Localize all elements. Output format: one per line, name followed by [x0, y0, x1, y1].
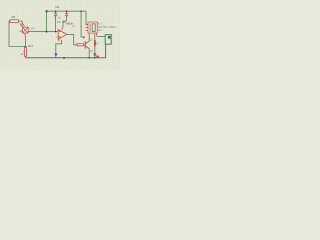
- wire bottom bus: [25, 44, 105, 58]
- wire left bus R1: [9, 21, 25, 47]
- node dot rail C1: [55, 10, 57, 12]
- wire relay pin2 to diode: [94, 35, 96, 39]
- wire C1 bottom: [55, 17, 57, 31]
- svg-text:RL1: RL1: [97, 21, 102, 25]
- wire top rail: [47, 10, 87, 12]
- op-amp U1: [57, 27, 68, 41]
- node dot divider: [25, 46, 27, 48]
- svg-text:..: ..: [97, 46, 99, 50]
- svg-text:RV1: RV1: [28, 44, 34, 48]
- node dot rail corner: [46, 10, 48, 12]
- wire relay to load box: [97, 36, 105, 38]
- node dot input x46: [46, 31, 48, 33]
- capacitor C1: [54, 11, 57, 17]
- wire op-amp ground leg: [56, 42, 62, 58]
- svg-text:C2: C2: [57, 20, 61, 24]
- wire rail-to-input vertical: [46, 11, 48, 31]
- wire C2 to op-amp V+: [63, 17, 67, 27]
- wire diode to bus: [94, 47, 96, 58]
- resistor R1: [10, 20, 18, 23]
- wire LDR bottom to node: [24, 36, 26, 47]
- wire RV1 stubs: [24, 47, 26, 58]
- node red tick x83.5: [83, 36, 84, 38]
- node dot input C1: [55, 31, 57, 33]
- node dot rail C2: [66, 10, 68, 12]
- node dot rail x81: [80, 10, 82, 12]
- wire rail to relay: [85, 11, 87, 24]
- resistor R3: [77, 44, 84, 46]
- svg-text:U1: U1: [72, 24, 76, 28]
- wire LDR stub left: [20, 30, 23, 32]
- svg-text:Q1: Q1: [89, 37, 93, 41]
- wire relay pin1 to collector: [88, 35, 90, 41]
- relay RL1: [86, 22, 98, 36]
- wire R1 to LDR: [18, 21, 22, 27]
- red X marker: [94, 53, 99, 58]
- diode D1: [94, 40, 96, 47]
- wire inverting input horizontal: [28, 31, 57, 33]
- svg-text:C1: C1: [56, 5, 60, 9]
- capacitor C2: [65, 11, 68, 17]
- node dot bus mystery: [63, 57, 65, 59]
- node dot bus diode: [94, 57, 96, 59]
- wire rail drop x81: [81, 11, 83, 37]
- transistor Q1: [85, 41, 89, 49]
- svg-text:LDR: LDR: [29, 26, 34, 30]
- LDR LDR1: [20, 23, 28, 36]
- svg-text:12V: 12V: [97, 28, 102, 32]
- wire op-amp output: [67, 34, 77, 44]
- svg-text:547: 547: [89, 49, 94, 53]
- background grid: [0, 0, 120, 70]
- svg-text:R1: R1: [12, 15, 16, 19]
- ground: [54, 54, 57, 57]
- load box lamp: [105, 35, 111, 45]
- wire emitter to bus: [88, 49, 90, 58]
- potentiometer RV1: [23, 47, 26, 56]
- node dot bus emitter: [88, 57, 90, 59]
